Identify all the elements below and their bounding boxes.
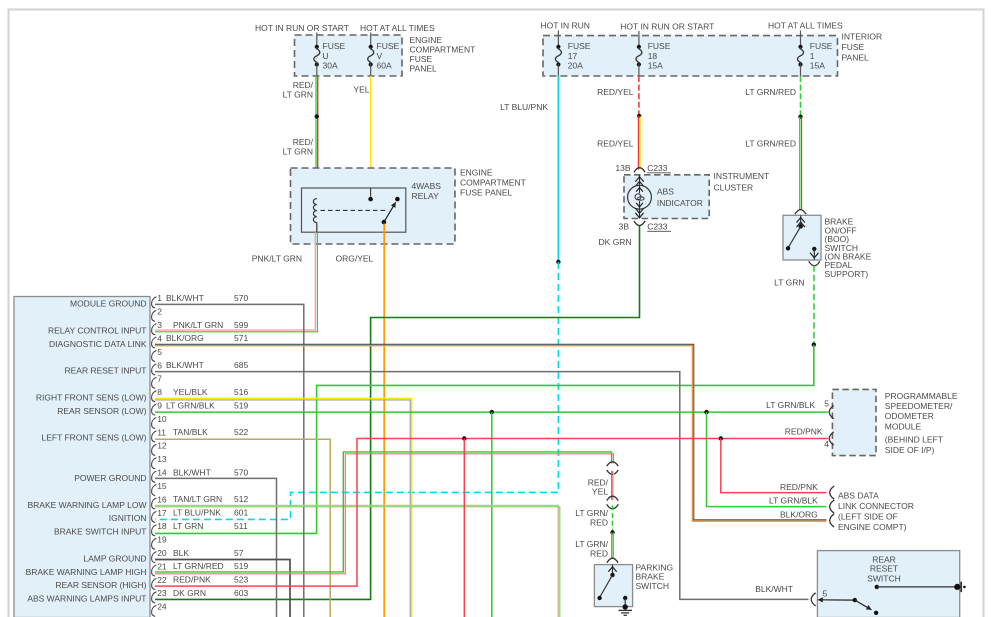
- svg-text:ORG/YEL: ORG/YEL: [336, 254, 374, 264]
- svg-text:RIGHT FRONT SENS (LOW): RIGHT FRONT SENS (LOW): [36, 392, 147, 402]
- svg-text:HOT IN RUN: HOT IN RUN: [541, 21, 590, 31]
- svg-text:(BEHIND LEFT: (BEHIND LEFT: [885, 435, 943, 445]
- svg-text:14: 14: [157, 468, 167, 478]
- parking brake switch internals: [612, 565, 614, 575]
- svg-text:PROGRAMMABLE: PROGRAMMABLE: [885, 391, 958, 401]
- svg-text:RED/PNK: RED/PNK: [780, 482, 818, 492]
- svg-text:13B: 13B: [615, 163, 630, 173]
- svg-text:LT GRN: LT GRN: [173, 521, 203, 531]
- svg-text:LT GRN: LT GRN: [283, 147, 313, 157]
- svg-text:9: 9: [157, 400, 162, 410]
- svg-text:ENGINE: ENGINE: [460, 168, 493, 178]
- svg-text:16: 16: [157, 494, 167, 504]
- ABS data link BLK/ORG connector: [830, 514, 835, 527]
- fuse 17 20A: [556, 45, 560, 49]
- svg-text:8: 8: [157, 387, 162, 397]
- svg-text:RED/YEL: RED/YEL: [597, 87, 634, 97]
- instrument cluster box: [624, 175, 709, 219]
- svg-text:BLK/WHT: BLK/WHT: [166, 360, 204, 370]
- svg-text:(LEFT SIDE OF: (LEFT SIDE OF: [838, 511, 898, 521]
- junction on RED/YEL: [637, 114, 641, 118]
- wire LT GRN/RED pair to parking brake switch: [611, 533, 613, 559]
- wire BLK/WHT 570 pin 14: [155, 478, 277, 617]
- svg-text:RED/PNK: RED/PNK: [173, 575, 211, 585]
- svg-text:ABS DATA: ABS DATA: [838, 491, 879, 501]
- svg-text:4: 4: [824, 439, 829, 449]
- svg-text:YEL: YEL: [353, 85, 369, 95]
- svg-text:LT GRN/RED: LT GRN/RED: [745, 138, 796, 148]
- svg-text:4WABS: 4WABS: [412, 181, 442, 191]
- wire stub to fuse U: [316, 33, 318, 47]
- svg-text:22: 22: [157, 575, 167, 585]
- svg-text:LT BLU/PNK: LT BLU/PNK: [173, 508, 221, 518]
- svg-text:U: U: [323, 51, 329, 61]
- connector C233 pin 3B arc: [634, 221, 645, 226]
- svg-text:FUSE: FUSE: [842, 42, 865, 52]
- svg-text:INDICATOR: INDICATOR: [657, 198, 703, 208]
- fuse 17 stub below: [557, 65, 559, 77]
- junction RED/PNK at x721: [719, 436, 723, 440]
- svg-text:MODULE GROUND: MODULE GROUND: [70, 299, 147, 309]
- svg-text:PANEL: PANEL: [842, 52, 870, 62]
- interior fuse panel box: [543, 36, 838, 76]
- wire RED/YEL pair to parking brake: [611, 471, 613, 500]
- svg-text:57: 57: [234, 548, 244, 558]
- svg-text:BLK/WHT: BLK/WHT: [173, 467, 211, 477]
- wire LT GRN/BLK 519 pin 9 to speedometer pin 5: [155, 411, 828, 413]
- svg-text:SIDE OF I/P): SIDE OF I/P): [885, 445, 935, 455]
- svg-text:COMPARTMENT: COMPARTMENT: [460, 178, 526, 188]
- junction RED/PNK at x464: [462, 436, 466, 440]
- svg-text:HOT AT ALL TIMES: HOT AT ALL TIMES: [768, 21, 843, 31]
- svg-text:POWER GROUND: POWER GROUND: [74, 473, 146, 483]
- svg-text:MODULE: MODULE: [885, 421, 922, 431]
- svg-text:511: 511: [234, 521, 248, 531]
- wire BLK/WHT 685 pin 6 to rear reset switch: [155, 372, 809, 600]
- svg-text:17: 17: [157, 508, 167, 518]
- parking brake switch box: [594, 565, 632, 607]
- svg-text:V: V: [377, 51, 383, 61]
- parking brake connector arc: [607, 558, 618, 563]
- wire LT GRN solid route to module pin 18: [155, 345, 814, 534]
- wire LT BLU/PNK solid from fuse 17: [557, 76, 559, 262]
- svg-text:LAMP GROUND: LAMP GROUND: [83, 553, 146, 563]
- svg-text:INTERIOR: INTERIOR: [842, 31, 883, 41]
- svg-text:SPEEDOMETER/: SPEEDOMETER/: [885, 401, 953, 411]
- svg-text:BRAKE WARNING LAMP HIGH: BRAKE WARNING LAMP HIGH: [26, 567, 147, 577]
- svg-text:BLK/WHT: BLK/WHT: [755, 584, 793, 594]
- BOO switch connector arc bottom: [809, 261, 820, 266]
- svg-text:LT GRN/BLK: LT GRN/BLK: [766, 400, 815, 410]
- svg-text:519: 519: [234, 561, 248, 571]
- speedometer pin 4 connector: [829, 432, 834, 445]
- svg-text:HOT AT ALL TIMES: HOT AT ALL TIMES: [360, 23, 435, 33]
- svg-text:ABS: ABS: [657, 187, 674, 197]
- junction on RED/LT GRN: [315, 114, 319, 118]
- wire TAN/BLK 522 pin 11: [155, 439, 330, 617]
- wire LT GRN dashed below BOO switch: [813, 265, 815, 345]
- svg-text:FUSE: FUSE: [568, 41, 591, 51]
- junction LT GRN/BLK at x706: [704, 410, 708, 414]
- svg-text:ENGINE: ENGINE: [410, 35, 443, 45]
- BOO switch internals: [800, 215, 802, 226]
- wire YEL/BLK 516 pin 8: [155, 399, 412, 617]
- svg-text:LT GRN: LT GRN: [283, 90, 313, 100]
- svg-text:HOT IN RUN OR START: HOT IN RUN OR START: [620, 21, 714, 31]
- engine compartment fuse panel box around relay: [291, 168, 456, 244]
- svg-text:BRAKE: BRAKE: [636, 572, 665, 582]
- wire stub below fuse V: [370, 65, 372, 77]
- module pin hooks and numbers: [152, 293, 167, 616]
- programmable speedometer module box: [832, 389, 876, 455]
- wire TAN/LT GRN 512 pin 16: [155, 505, 558, 617]
- svg-text:6: 6: [157, 360, 162, 370]
- wire BLK 57 pin 20: [155, 560, 290, 617]
- svg-text:1: 1: [157, 293, 162, 303]
- svg-text:RED/: RED/: [293, 80, 314, 90]
- svg-text:7: 7: [157, 374, 162, 384]
- wire stub to fuse 18: [638, 31, 640, 47]
- svg-text:BRAKE SWITCH INPUT: BRAKE SWITCH INPUT: [54, 527, 147, 537]
- svg-text:20: 20: [157, 548, 167, 558]
- wire stub to fuse 1: [800, 31, 802, 47]
- junction at parking brake wire: [610, 530, 614, 534]
- svg-text:571: 571: [234, 333, 248, 343]
- wire ORG/YEL from relay switch to bottom edge: [383, 224, 385, 617]
- svg-text:FUSE: FUSE: [323, 41, 346, 51]
- svg-text:3: 3: [157, 320, 162, 330]
- svg-text:LT GRN/BLK: LT GRN/BLK: [769, 496, 818, 506]
- branch RED/PNK to ABS data link: [721, 439, 827, 493]
- junction on LT BLU/PNK: [556, 260, 560, 264]
- svg-text:FUSE: FUSE: [810, 41, 833, 51]
- svg-text:BRAKE WARNING LAMP LOW: BRAKE WARNING LAMP LOW: [27, 500, 146, 510]
- svg-text:REAR SENSOR (LOW): REAR SENSOR (LOW): [57, 406, 146, 416]
- svg-text:1: 1: [810, 51, 815, 61]
- svg-text:570: 570: [234, 467, 248, 477]
- svg-text:60A: 60A: [377, 61, 392, 71]
- wire BLK/WHT 570 pin 1: [155, 304, 304, 617]
- junction LT GRN/BLK at x492: [490, 410, 494, 414]
- svg-text:19: 19: [157, 535, 167, 545]
- svg-text:RESET: RESET: [870, 564, 898, 574]
- svg-text:BLK: BLK: [173, 548, 189, 558]
- BOO switch box: [783, 215, 821, 260]
- wire LT GRN/RED dashed to junction: [612, 505, 614, 532]
- wire RED/PNK 523 pin 22 to speedometer pin 4: [155, 439, 828, 587]
- svg-text:C233: C233: [647, 222, 668, 232]
- svg-text:LT GRN: LT GRN: [774, 278, 804, 288]
- svg-text:LINK CONNECTOR: LINK CONNECTOR: [838, 501, 914, 511]
- wire PNK/LT GRN from relay coil to module pin 3: [155, 232, 315, 330]
- svg-text:601: 601: [234, 508, 248, 518]
- svg-text:3B: 3B: [619, 222, 630, 232]
- svg-text:PNK/LT GRN: PNK/LT GRN: [173, 320, 223, 330]
- svg-text:12: 12: [157, 441, 167, 451]
- branch LT GRN/BLK to ABS data link: [707, 412, 827, 507]
- svg-text:SUPPORT): SUPPORT): [825, 269, 869, 279]
- rear reset switch internals: [875, 585, 879, 589]
- wire stub below fuse U: [316, 65, 318, 77]
- svg-text:LT BLU/PNK: LT BLU/PNK: [500, 102, 548, 112]
- svg-text:RED/YEL: RED/YEL: [597, 138, 634, 148]
- wire LT GRN/RED dashed from fuse 1: [800, 76, 802, 117]
- wire RED/YEL pair to instrument cluster: [638, 116, 640, 170]
- svg-text:DIAGNOSTIC DATA LINK: DIAGNOSTIC DATA LINK: [49, 339, 147, 349]
- branch RED/PNK down to bottom edge: [463, 439, 465, 617]
- branch LT GRN/BLK down to bottom edge: [491, 412, 493, 617]
- relay 4WABS inner box: [302, 188, 406, 232]
- fuse 18 15A: [637, 45, 641, 49]
- relay internal dashed link: [321, 209, 388, 211]
- svg-text:21: 21: [157, 561, 167, 571]
- BOO switch connector arc top: [795, 210, 806, 215]
- svg-text:519: 519: [234, 400, 248, 410]
- svg-text:BLK/ORG: BLK/ORG: [166, 333, 204, 343]
- svg-text:RED: RED: [590, 548, 608, 558]
- wire RED/YEL dashed from fuse 18: [638, 76, 640, 116]
- svg-text:YEL: YEL: [592, 487, 608, 497]
- svg-text:REAR RESET INPUT: REAR RESET INPUT: [64, 366, 146, 376]
- ABS indicator bulb: [639, 175, 641, 186]
- svg-text:DK GRN: DK GRN: [173, 588, 206, 598]
- svg-text:COMPARTMENT: COMPARTMENT: [410, 45, 476, 55]
- svg-text:LT GRN/RED: LT GRN/RED: [745, 87, 796, 97]
- svg-text:C233: C233: [647, 163, 668, 173]
- svg-text:ODOMETER: ODOMETER: [885, 411, 934, 421]
- svg-text:17: 17: [568, 51, 578, 61]
- svg-text:RED/PNK: RED/PNK: [785, 427, 823, 437]
- wire LT GRN/RED 519 pin 21 to parking brake connector: [155, 452, 612, 572]
- inline connector arcs lower pair: [607, 496, 619, 500]
- svg-text:LT GRN/BLK: LT GRN/BLK: [166, 400, 215, 410]
- fuse 1 stub below: [800, 65, 802, 77]
- svg-text:5: 5: [823, 589, 828, 599]
- svg-text:570: 570: [234, 293, 248, 303]
- svg-text:FUSE PANEL: FUSE PANEL: [460, 188, 513, 198]
- wire BLK/ORG 571 pin 4 to ABS data link: [155, 344, 827, 520]
- ground at parking brake switch: [623, 604, 628, 609]
- svg-text:RED: RED: [590, 517, 608, 527]
- svg-text:512: 512: [234, 494, 248, 504]
- inline connector arcs upper pair: [607, 462, 619, 466]
- svg-text:20A: 20A: [568, 61, 583, 71]
- svg-text:FUSE: FUSE: [410, 54, 433, 64]
- svg-text:30A: 30A: [323, 61, 338, 71]
- wire stub to fuse 17: [557, 31, 559, 47]
- svg-text:2: 2: [157, 307, 162, 317]
- svg-text:BLK/ORG: BLK/ORG: [780, 510, 818, 520]
- rear reset connector arc: [811, 593, 816, 606]
- svg-text:INSTRUMENT: INSTRUMENT: [714, 171, 770, 181]
- svg-text:4: 4: [157, 333, 162, 343]
- svg-text:599: 599: [234, 320, 248, 330]
- svg-text:5: 5: [824, 399, 829, 409]
- svg-text:10: 10: [157, 414, 167, 424]
- svg-text:685: 685: [234, 360, 248, 370]
- svg-text:ABS WARNING LAMPS INPUT: ABS WARNING LAMPS INPUT: [27, 594, 146, 604]
- svg-text:11: 11: [157, 427, 166, 437]
- junction on LT GRN: [812, 343, 816, 347]
- svg-text:24: 24: [157, 602, 167, 612]
- svg-text:TAN/LT GRN: TAN/LT GRN: [173, 494, 222, 504]
- relay switch arm: [395, 197, 400, 202]
- svg-text:HOT IN RUN OR START: HOT IN RUN OR START: [255, 23, 349, 33]
- svg-text:SWITCH: SWITCH: [636, 581, 670, 591]
- svg-text:PANEL: PANEL: [410, 64, 438, 74]
- engine compartment fuse panel box: [295, 35, 403, 76]
- connector C233 pin 13B arc: [634, 168, 645, 173]
- svg-text:FUSE: FUSE: [377, 41, 400, 51]
- fuse V 60A: [369, 45, 373, 49]
- ABS data link LT GRN/BLK connector: [830, 500, 835, 513]
- svg-text:LEFT FRONT SENS (LOW): LEFT FRONT SENS (LOW): [41, 433, 146, 443]
- ABS module connector box: [14, 297, 150, 617]
- svg-text:15A: 15A: [648, 61, 663, 71]
- svg-text:REAR SENSOR (HIGH): REAR SENSOR (HIGH): [55, 580, 146, 590]
- svg-text:LT GRN/RED: LT GRN/RED: [173, 561, 224, 571]
- svg-text:18: 18: [648, 51, 658, 61]
- wire RED/LT GRN from fuse U to relay coil: [315, 76, 317, 199]
- svg-text:PNK/LT GRN: PNK/LT GRN: [252, 254, 302, 264]
- svg-text:SWITCH: SWITCH: [867, 574, 901, 584]
- wire LT BLU/PNK dashed route to module pin 17: [155, 262, 558, 519]
- svg-text:RED/: RED/: [293, 137, 314, 147]
- svg-text:603: 603: [234, 588, 248, 598]
- svg-text:5: 5: [157, 347, 162, 357]
- svg-text:DK GRN: DK GRN: [599, 237, 632, 247]
- ABS data link RED/PNK connector: [830, 486, 835, 499]
- svg-text:15A: 15A: [810, 61, 825, 71]
- svg-text:RELAY CONTROL INPUT: RELAY CONTROL INPUT: [48, 325, 147, 335]
- svg-text:522: 522: [234, 427, 248, 437]
- svg-text:23: 23: [157, 588, 167, 598]
- wire YEL from fuse V to relay: [370, 76, 372, 188]
- svg-text:516: 516: [234, 387, 248, 397]
- svg-text:CLUSTER: CLUSTER: [714, 183, 754, 193]
- svg-text:RELAY: RELAY: [412, 191, 440, 201]
- svg-text:IGNITION: IGNITION: [109, 513, 147, 523]
- svg-text:13: 13: [157, 454, 167, 464]
- svg-text:BLK/WHT: BLK/WHT: [166, 293, 204, 303]
- fuse 18 stub below: [638, 65, 640, 77]
- svg-text:ENGINE COMPT): ENGINE COMPT): [838, 522, 907, 532]
- relay coil: [313, 199, 316, 223]
- wire DK GRN from ABS indicator to module pin 23: [155, 226, 640, 600]
- wire LT GRN/RED pair to BOO switch: [799, 117, 801, 211]
- svg-text:TAN/BLK: TAN/BLK: [173, 427, 208, 437]
- fuse U 30A: [315, 45, 319, 49]
- svg-text:YEL/BLK: YEL/BLK: [173, 387, 208, 397]
- rear reset switch box: [817, 551, 959, 617]
- fuse 1 15A: [798, 45, 802, 49]
- junction on LT GRN/RED: [798, 115, 802, 119]
- svg-text:15: 15: [157, 481, 167, 491]
- svg-text:FUSE: FUSE: [648, 41, 671, 51]
- relay fixed contact from fuse V: [370, 188, 372, 197]
- wire stub to fuse V: [370, 33, 372, 47]
- svg-text:523: 523: [234, 575, 248, 585]
- svg-text:18: 18: [157, 521, 167, 531]
- speedometer pin 5 connector: [829, 406, 834, 419]
